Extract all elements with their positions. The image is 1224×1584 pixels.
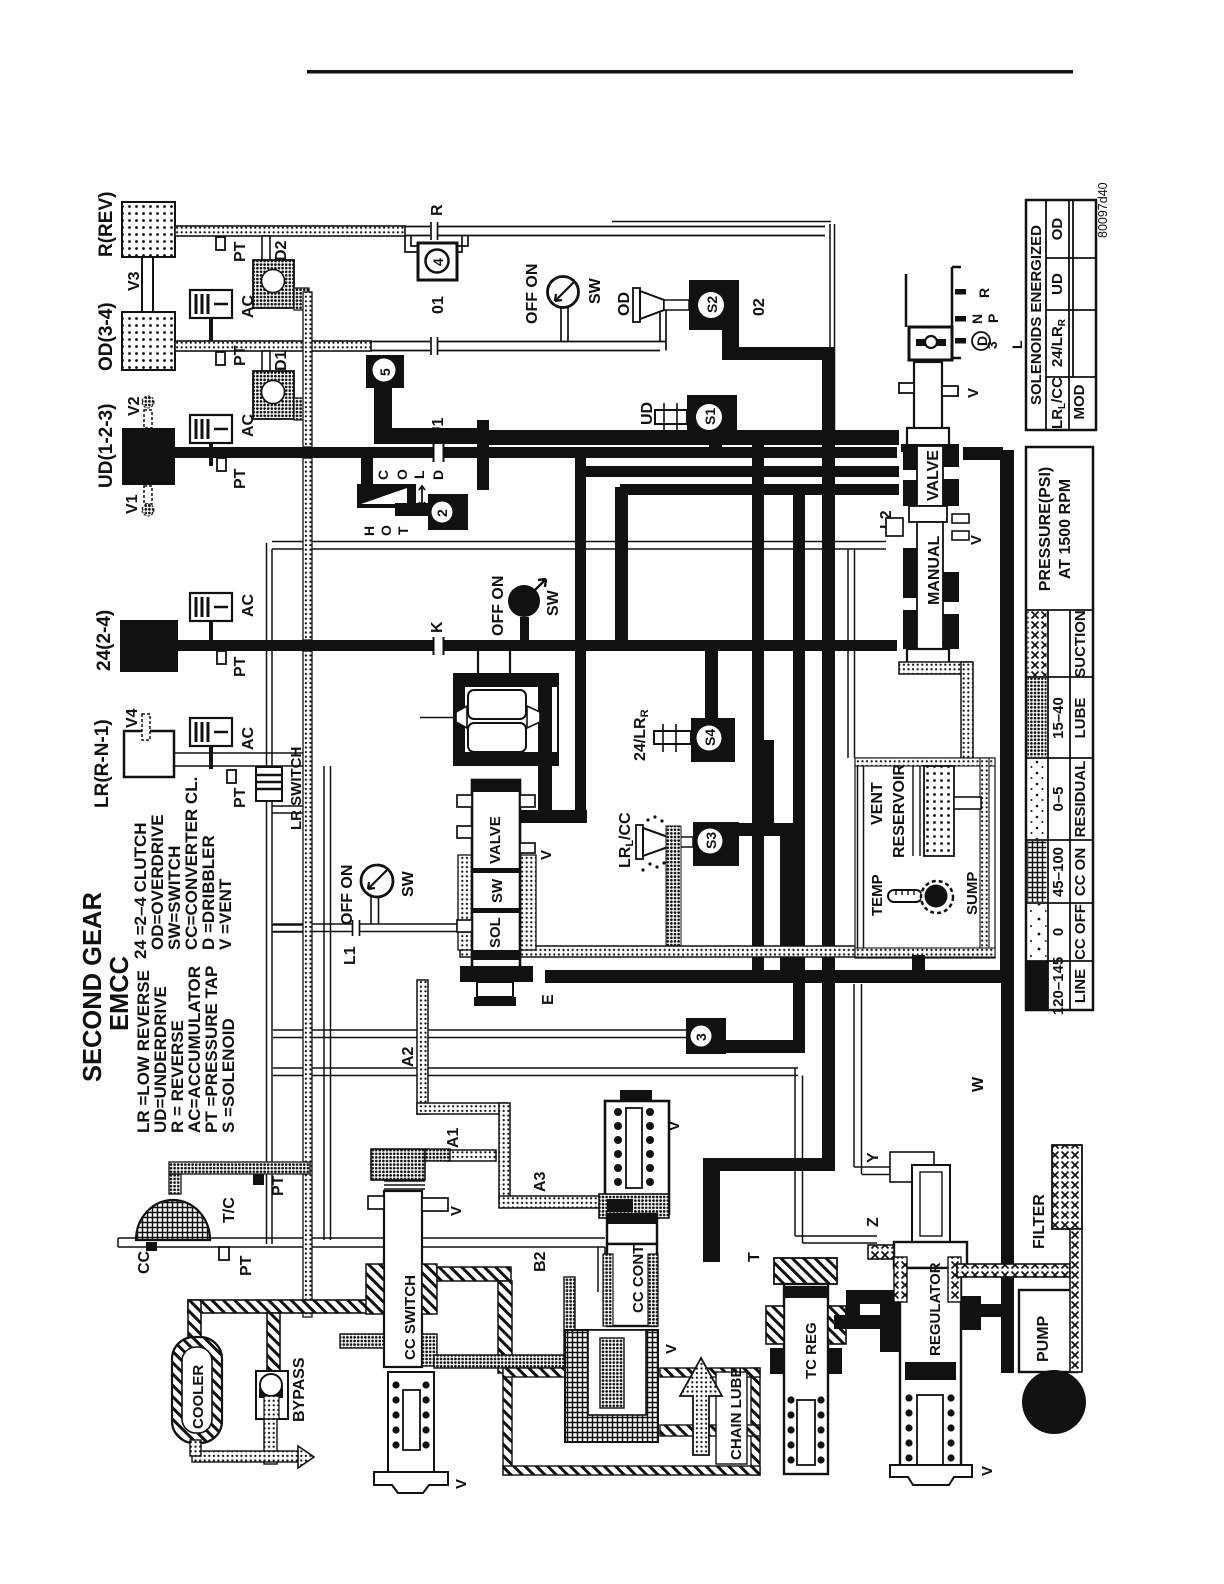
svg-text:VENT: VENT	[869, 782, 886, 825]
svg-text:AC: AC	[240, 593, 257, 617]
svg-text:45–100: 45–100	[1050, 847, 1067, 897]
svg-text:A3: A3	[532, 1171, 549, 1192]
svg-text:V4: V4	[124, 708, 141, 728]
svg-text:V: V	[965, 388, 982, 398]
svg-text:AC: AC	[240, 726, 257, 750]
svg-text:BYPASS: BYPASS	[291, 1357, 308, 1422]
svg-text:EMCC: EMCC	[106, 956, 134, 1031]
svg-text:V: V	[448, 1206, 465, 1216]
svg-text:V: V	[666, 1121, 683, 1131]
svg-text:PT: PT	[232, 787, 249, 808]
svg-text:V1: V1	[124, 494, 141, 514]
svg-text:Z: Z	[865, 1217, 882, 1227]
svg-text:V: V	[979, 1466, 996, 1476]
svg-text:H: H	[361, 526, 377, 536]
svg-text:V =VENT: V =VENT	[216, 878, 235, 950]
svg-text:PT: PT	[232, 241, 249, 262]
svg-text:CHAIN LUBE: CHAIN LUBE	[728, 1368, 745, 1461]
svg-text:02: 02	[751, 298, 768, 316]
svg-text:R: R	[976, 288, 992, 298]
svg-text:PT: PT	[232, 468, 249, 489]
svg-text:R: R	[429, 204, 446, 216]
svg-text:A2: A2	[400, 1046, 417, 1067]
svg-text:4: 4	[430, 258, 446, 266]
svg-text:T: T	[395, 526, 411, 535]
svg-text:UD: UD	[1049, 273, 1066, 295]
svg-text:UD(1-2-3): UD(1-2-3)	[96, 404, 117, 488]
svg-text:PT: PT	[238, 1255, 255, 1276]
svg-text:CC SWITCH: CC SWITCH	[402, 1275, 419, 1360]
svg-text:V2: V2	[126, 396, 143, 416]
svg-text:LRL/CC: LRL/CC	[1049, 377, 1068, 429]
svg-text:SUMP: SUMP	[964, 872, 981, 915]
svg-text:3: 3	[984, 341, 1000, 349]
svg-text:CC ON: CC ON	[1072, 848, 1089, 896]
svg-text:S3: S3	[703, 832, 719, 849]
svg-text:CC: CC	[136, 1250, 153, 1274]
svg-text:SUCTION: SUCTION	[1072, 610, 1089, 678]
svg-text:OD(3-4): OD(3-4)	[96, 302, 117, 371]
svg-text:S2: S2	[704, 296, 720, 313]
svg-text:15–40: 15–40	[1050, 697, 1067, 739]
svg-text:REGULATOR: REGULATOR	[927, 1262, 944, 1356]
svg-text:OFF ON: OFF ON	[339, 865, 356, 925]
svg-text:2: 2	[434, 509, 450, 517]
svg-text:MANUAL: MANUAL	[926, 535, 943, 605]
svg-text:OFF ON: OFF ON	[490, 576, 507, 636]
svg-text:S4: S4	[702, 729, 718, 746]
svg-text:D2: D2	[273, 240, 290, 261]
svg-text:U1: U1	[430, 417, 447, 438]
svg-text:N: N	[969, 314, 985, 324]
svg-text:0: 0	[1050, 928, 1067, 936]
svg-text:V: V	[663, 1344, 680, 1354]
svg-text:UD: UD	[639, 402, 656, 425]
svg-text:V: V	[968, 535, 985, 545]
svg-text:W: W	[970, 1076, 987, 1092]
svg-text:COOLER: COOLER	[190, 1365, 207, 1429]
svg-text:RESIDUAL: RESIDUAL	[1072, 761, 1089, 838]
svg-text:S1: S1	[702, 408, 718, 425]
svg-text:LUBE: LUBE	[1072, 698, 1089, 739]
svg-text:24(2-4): 24(2-4)	[94, 610, 115, 671]
svg-text:01: 01	[430, 296, 447, 314]
svg-text:SW: SW	[400, 870, 417, 897]
svg-text:Y: Y	[865, 1152, 882, 1163]
svg-text:RESERVOIR: RESERVOIR	[891, 764, 908, 858]
svg-text:O: O	[394, 469, 410, 480]
svg-text:LRL/CC: LRL/CC	[617, 812, 636, 868]
svg-text:TEMP: TEMP	[869, 874, 886, 916]
svg-text:CC OFF: CC OFF	[1072, 904, 1089, 960]
svg-text:LR(R-N-1): LR(R-N-1)	[92, 719, 113, 808]
svg-text:L1: L1	[342, 946, 359, 965]
svg-text:D1: D1	[273, 350, 290, 371]
svg-text:0–5: 0–5	[1050, 786, 1067, 811]
svg-text:L: L	[411, 470, 427, 479]
svg-text:P: P	[985, 314, 1001, 323]
svg-text:SW: SW	[587, 277, 604, 304]
svg-text:5: 5	[377, 368, 393, 376]
svg-text:80097d40: 80097d40	[1096, 182, 1110, 238]
svg-text:E: E	[540, 994, 557, 1005]
svg-text:AT 1500 RPM: AT 1500 RPM	[1057, 479, 1074, 579]
svg-text:C: C	[375, 470, 391, 480]
svg-text:SW: SW	[489, 878, 506, 903]
svg-text:A1: A1	[445, 1127, 462, 1148]
svg-text:O: O	[378, 525, 394, 536]
svg-text:TC REG: TC REG	[803, 1322, 820, 1379]
svg-text:PT: PT	[232, 656, 249, 677]
svg-text:CC CONT: CC CONT	[630, 1245, 647, 1313]
svg-text:SECOND GEAR: SECOND GEAR	[79, 892, 107, 1082]
svg-text:LINE: LINE	[1072, 969, 1089, 1003]
svg-text:SOLENOIDS ENERGIZED: SOLENOIDS ENERGIZED	[1028, 225, 1045, 405]
svg-text:T: T	[746, 1252, 763, 1262]
svg-text:V3: V3	[126, 271, 143, 291]
svg-text:OD: OD	[1049, 218, 1066, 241]
svg-text:PT: PT	[270, 1175, 287, 1196]
svg-text:V: V	[538, 850, 555, 860]
svg-text:VALVE: VALVE	[925, 450, 942, 501]
svg-text:3: 3	[693, 1033, 709, 1041]
svg-text:V: V	[453, 1479, 470, 1489]
svg-text:PRESSURE(PSI): PRESSURE(PSI)	[1037, 467, 1054, 591]
svg-text:SW: SW	[545, 589, 562, 616]
svg-text:FILTER: FILTER	[1031, 1194, 1048, 1249]
svg-text:T/C: T/C	[221, 1197, 238, 1223]
svg-text:PUMP: PUMP	[1035, 1315, 1052, 1362]
svg-text:OFF ON: OFF ON	[524, 264, 541, 324]
svg-text:MOD: MOD	[1071, 384, 1088, 419]
svg-text:SOL: SOL	[487, 917, 504, 948]
svg-text:S =SOLENOID: S =SOLENOID	[219, 1018, 238, 1133]
svg-text:L: L	[1009, 340, 1025, 349]
svg-text:B2: B2	[532, 1251, 549, 1272]
svg-text:VALVE: VALVE	[487, 816, 504, 864]
svg-text:R(REV): R(REV)	[96, 192, 117, 257]
svg-text:D: D	[430, 470, 446, 480]
svg-text:K: K	[429, 621, 446, 633]
svg-text:PT: PT	[232, 345, 249, 366]
svg-text:OD: OD	[616, 292, 633, 316]
svg-text:120–145: 120–145	[1050, 957, 1067, 1015]
